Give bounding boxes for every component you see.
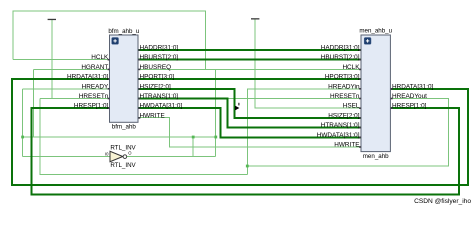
svg-text:HRDATA[31:0]: HRDATA[31:0] bbox=[67, 74, 109, 81]
svg-text:HGRANT: HGRANT bbox=[81, 64, 108, 71]
svg-text:HRESETn: HRESETn bbox=[79, 93, 109, 100]
svg-text:HADDR[31:0]: HADDR[31:0] bbox=[140, 45, 179, 52]
svg-text:HSIZE[2:0]: HSIZE[2:0] bbox=[328, 112, 359, 119]
svg-text:HSEL: HSEL bbox=[343, 103, 360, 110]
svg-text:HCLK: HCLK bbox=[342, 64, 360, 71]
svg-text:HWDATA[31:0]: HWDATA[31:0] bbox=[140, 103, 183, 110]
svg-text:HBUSREQ: HBUSREQ bbox=[140, 64, 172, 71]
svg-text:HWRITE: HWRITE bbox=[334, 142, 359, 149]
svg-text:HREADYout: HREADYout bbox=[392, 93, 427, 100]
svg-text:HRDATA[31:0]: HRDATA[31:0] bbox=[392, 83, 434, 90]
svg-text:HREADY: HREADY bbox=[82, 83, 109, 90]
svg-text:HCLK: HCLK bbox=[91, 54, 109, 61]
svg-text:bfm_ahb: bfm_ahb bbox=[112, 124, 137, 131]
svg-text:HTRANS[1:0]: HTRANS[1:0] bbox=[321, 122, 360, 129]
svg-text:HPORT[3:0]: HPORT[3:0] bbox=[325, 74, 360, 81]
svg-text:RTL_INV: RTL_INV bbox=[110, 144, 136, 151]
svg-text:HBURST[2:0]: HBURST[2:0] bbox=[140, 54, 179, 61]
svg-text:CSDN @fislyer_iho: CSDN @fislyer_iho bbox=[414, 198, 471, 205]
svg-text:I0: I0 bbox=[105, 152, 109, 157]
svg-text:HRESP[1:0]: HRESP[1:0] bbox=[74, 103, 109, 110]
svg-text:RTL_INV: RTL_INV bbox=[110, 162, 136, 169]
svg-text:men_ahb: men_ahb bbox=[363, 153, 389, 160]
svg-text:HREADYin: HREADYin bbox=[328, 83, 360, 90]
svg-text:HTRANS[1:0]: HTRANS[1:0] bbox=[140, 93, 179, 100]
svg-text:HSIZE[2:0]: HSIZE[2:0] bbox=[140, 83, 171, 90]
svg-text:HADDR[31:0]: HADDR[31:0] bbox=[321, 45, 360, 52]
svg-text:HRESP[1:0]: HRESP[1:0] bbox=[392, 103, 427, 110]
svg-text:men_ahb_u: men_ahb_u bbox=[359, 28, 392, 35]
svg-text:HWDATA[31:0]: HWDATA[31:0] bbox=[317, 132, 360, 139]
svg-text:HBURST[2:0]: HBURST[2:0] bbox=[321, 54, 360, 61]
svg-text:bfm_ahb_u: bfm_ahb_u bbox=[108, 28, 140, 35]
svg-text:HWRITE: HWRITE bbox=[140, 112, 165, 119]
svg-text:HPORT[3:0]: HPORT[3:0] bbox=[140, 74, 175, 81]
svg-text:HRESETn: HRESETn bbox=[330, 93, 360, 100]
